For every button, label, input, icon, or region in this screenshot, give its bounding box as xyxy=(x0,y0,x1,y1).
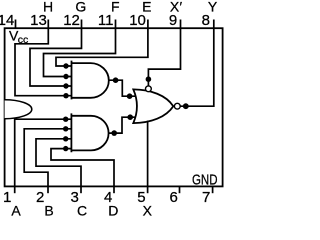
svg-text:8: 8 xyxy=(202,12,210,29)
pin 13 lead (H) xyxy=(47,20,49,29)
U2 output junction dot xyxy=(111,130,117,136)
svg-text:C: C xyxy=(77,202,87,218)
label Vcc (pin 14, inside body) xyxy=(9,27,28,46)
pin 6 lead (NC) xyxy=(179,186,181,193)
pin 5 lead (X) xyxy=(147,186,149,193)
wire C: pin 3 to AND U2 input 3 xyxy=(36,139,81,187)
pin 14 lead xyxy=(15,20,17,29)
pin 3 lead (C) xyxy=(80,186,82,193)
svg-text:11: 11 xyxy=(98,12,114,29)
pin 7 lead (GND) xyxy=(212,186,214,193)
wire E: pin 10 to AND U1 input 1 xyxy=(56,28,148,66)
X' input inversion bubble xyxy=(146,86,152,92)
svg-text:10: 10 xyxy=(129,12,146,29)
wire F: pin 11 to AND U1 input 2 xyxy=(44,28,116,76)
Y output junction dot xyxy=(183,103,189,109)
AND gate U1 xyxy=(72,61,109,100)
pin 9 lead (X') xyxy=(180,20,182,29)
wire U2 output to NOR U3 lower input xyxy=(109,117,136,133)
pin 2 lead (B) xyxy=(47,186,49,193)
pin 8 lead (Y) xyxy=(213,20,215,29)
wire A: pin 1 to AND U2 input 1 xyxy=(15,119,72,186)
pin 4 lead (D) xyxy=(113,186,115,193)
svg-text:A: A xyxy=(11,202,21,218)
U3 output inversion bubble xyxy=(174,103,180,109)
svg-text:7: 7 xyxy=(202,189,210,206)
AND gate U2 xyxy=(71,113,108,152)
IC package body xyxy=(5,28,223,186)
package notch xyxy=(5,100,32,119)
X' junction dot xyxy=(146,76,152,82)
NOR U3 upper input dot xyxy=(127,93,133,99)
NOR U3 lower input dot xyxy=(127,114,133,120)
U1 output junction dot xyxy=(113,77,119,83)
svg-text:′: ′ xyxy=(180,0,183,15)
svg-text:9: 9 xyxy=(169,12,177,29)
svg-text:B: B xyxy=(44,202,53,218)
wire X: pin 5 to NOR U3 bottom input xyxy=(147,121,149,187)
svg-text:GND: GND xyxy=(192,171,218,188)
svg-text:1: 1 xyxy=(3,189,11,206)
NOR gate U3 (OR with inverted output) xyxy=(133,89,173,123)
wire X': pin 9 to NOR U3 inverted top input xyxy=(148,28,180,86)
AND U2 input dots xyxy=(63,117,68,152)
pin 11 lead (F) xyxy=(115,20,117,29)
svg-text:D: D xyxy=(108,202,118,218)
svg-text:2: 2 xyxy=(36,189,44,206)
pin 10 lead (E) xyxy=(147,20,149,29)
wire D: pin 4 to AND U2 input 4 xyxy=(51,149,114,187)
wire G: pin 12 to AND U1 input 3 xyxy=(30,28,82,86)
AND U1 input dots xyxy=(63,63,68,98)
svg-text:X: X xyxy=(143,202,153,218)
wire B: pin 2 to AND U2 input 2 xyxy=(24,129,71,187)
wire U1 output to NOR U3 upper input xyxy=(109,80,136,96)
wire H: pin 13 to AND U1 input 4 xyxy=(15,28,72,96)
svg-text:6: 6 xyxy=(170,189,178,206)
svg-text:13: 13 xyxy=(30,12,47,29)
svg-text:12: 12 xyxy=(63,12,80,29)
pin 12 lead (G) xyxy=(81,20,83,29)
pin 1 lead (A) xyxy=(14,186,16,193)
wire Y: NOR U3 output to pin 8 xyxy=(180,28,214,106)
svg-text:cc: cc xyxy=(18,34,29,46)
